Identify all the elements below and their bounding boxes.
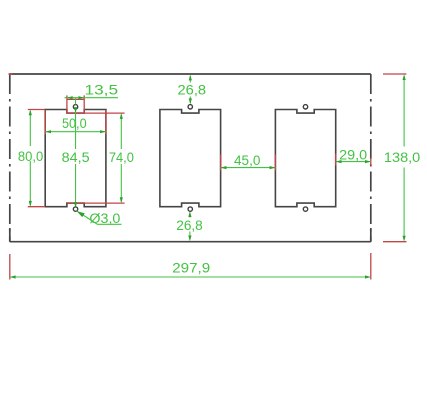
leader diameter 3,0 bbox=[77, 211, 122, 224]
dimension 29,0 line bbox=[336, 161, 371, 163]
dimension 80,0 line bbox=[29, 111, 31, 146]
red extension lines dim 297,9 bbox=[9, 254, 11, 280]
red extension lines dim 45,0 bbox=[220, 155, 222, 171]
dimension 45,0 line bbox=[221, 167, 276, 169]
cutout 1 (left) outline bbox=[45, 110, 106, 207]
plate corner solid stubs bbox=[9, 228, 11, 242]
cutout 1 bottom hole bbox=[73, 207, 77, 211]
cutout 3 top hole bbox=[303, 105, 307, 109]
dimension 13,5 line bbox=[65, 97, 119, 99]
svg-text:Ø3,0: Ø3,0 bbox=[89, 211, 120, 227]
svg-text:50,0: 50,0 bbox=[62, 116, 87, 131]
red extension lines dim 29,0 bbox=[335, 154, 337, 166]
cutout 3 (right) outline bbox=[275, 110, 335, 207]
svg-text:84,5: 84,5 bbox=[62, 150, 90, 166]
plate bottom edge bbox=[10, 241, 371, 243]
svg-text:138,0: 138,0 bbox=[384, 150, 420, 166]
plate top edge bbox=[10, 73, 371, 75]
svg-text:74,0: 74,0 bbox=[109, 150, 134, 166]
cutout 1 top hole bbox=[73, 105, 77, 109]
cutout 2 top hole bbox=[188, 105, 192, 109]
dimension 74,0 line bbox=[120, 115, 122, 150]
red extension lines dim 74,0 bbox=[67, 112, 125, 114]
svg-text:29,0: 29,0 bbox=[339, 148, 367, 164]
plate right edge (dash-dot) bbox=[370, 74, 372, 242]
red corner tick bbox=[9, 73, 13, 75]
svg-text:45,0: 45,0 bbox=[234, 153, 260, 169]
red extension lines dim 138,0 bbox=[383, 73, 407, 75]
svg-text:26,8: 26,8 bbox=[178, 82, 207, 98]
cutout 3 bottom hole bbox=[303, 207, 307, 211]
dimension 138,0 line bbox=[403, 76, 405, 147]
red extension lines dim 50,0 bbox=[44, 110, 46, 135]
red extension lines dim 13,5 bbox=[66, 95, 68, 113]
dimension 84,5 line bbox=[75, 98, 77, 105]
cutout 2 bottom hole bbox=[188, 207, 192, 211]
dimension 297,9 line bbox=[10, 276, 371, 278]
dimension 26,8 bottom bbox=[189, 213, 191, 218]
dimension 50,0 line bbox=[45, 131, 106, 133]
svg-text:297,9: 297,9 bbox=[172, 260, 210, 276]
svg-text:13,5: 13,5 bbox=[85, 83, 119, 99]
dimension 26,8 top bbox=[189, 76, 191, 83]
svg-text:80,0: 80,0 bbox=[18, 149, 43, 165]
plate left edge (dash-dot) bbox=[9, 74, 11, 242]
cutout 2 (middle) outline bbox=[160, 110, 221, 207]
red extension lines dim 80,0 bbox=[28, 109, 45, 111]
svg-text:26,8: 26,8 bbox=[176, 218, 203, 234]
